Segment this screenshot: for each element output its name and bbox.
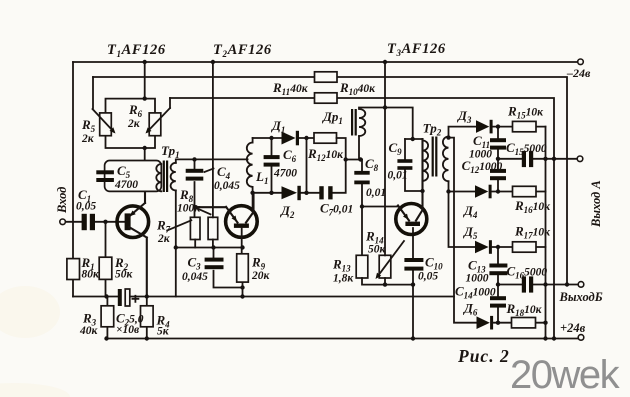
svg-text:C141000: C141000: [455, 284, 496, 301]
svg-text:4700: 4700: [273, 168, 297, 180]
svg-text:C121000: C121000: [462, 158, 503, 175]
svg-text:R1710к: R1710к: [514, 224, 551, 241]
svg-text:R1210к: R1210к: [307, 146, 344, 163]
svg-text:T2AF126: T2AF126: [213, 42, 272, 59]
svg-text:R1040к: R1040к: [339, 80, 376, 97]
svg-text:20к: 20к: [251, 270, 271, 282]
svg-text:C155000: C155000: [506, 140, 547, 157]
svg-text:20wek: 20wek: [510, 353, 621, 397]
svg-text:1000: 1000: [466, 273, 489, 285]
svg-text:0,045: 0,045: [214, 180, 240, 192]
svg-text:0,05: 0,05: [76, 201, 96, 213]
svg-text:×10в: ×10в: [116, 324, 139, 336]
svg-text:R1510к: R1510к: [507, 104, 544, 121]
svg-text:5к: 5к: [157, 326, 170, 338]
svg-text:Выход A: Выход A: [589, 180, 603, 228]
svg-text:C165000: C165000: [507, 264, 548, 281]
svg-text:R1610к: R1610к: [514, 198, 551, 215]
svg-text:2к: 2к: [81, 133, 95, 145]
svg-text:ВыходБ: ВыходБ: [559, 290, 603, 304]
svg-text:C70,01: C70,01: [320, 201, 353, 218]
svg-text:0,05: 0,05: [418, 271, 438, 283]
svg-text:R1810к: R1810к: [506, 301, 543, 318]
svg-text:T1AF126: T1AF126: [107, 42, 166, 59]
svg-text:0,01: 0,01: [366, 187, 386, 199]
svg-text:2к: 2к: [157, 233, 171, 245]
svg-text:R1140к: R1140к: [272, 80, 309, 97]
svg-text:–24в: –24в: [566, 66, 591, 80]
svg-text:1,8к: 1,8к: [333, 273, 354, 285]
svg-text:Вход: Вход: [55, 187, 69, 214]
svg-text:50к: 50к: [368, 244, 387, 256]
svg-text:+24в: +24в: [560, 321, 586, 335]
svg-text:80к: 80к: [82, 269, 101, 281]
svg-text:T3AF126: T3AF126: [387, 41, 446, 58]
svg-text:Рис. 2: Рис. 2: [457, 346, 510, 366]
svg-text:1000: 1000: [469, 149, 492, 161]
svg-text:2к: 2к: [127, 118, 141, 130]
svg-text:0,01: 0,01: [388, 170, 408, 182]
svg-text:40к: 40к: [79, 325, 99, 337]
svg-text:0,045: 0,045: [182, 271, 208, 283]
svg-text:4700: 4700: [114, 179, 138, 191]
svg-text:50к: 50к: [115, 269, 134, 281]
svg-text:100к: 100к: [177, 203, 201, 215]
